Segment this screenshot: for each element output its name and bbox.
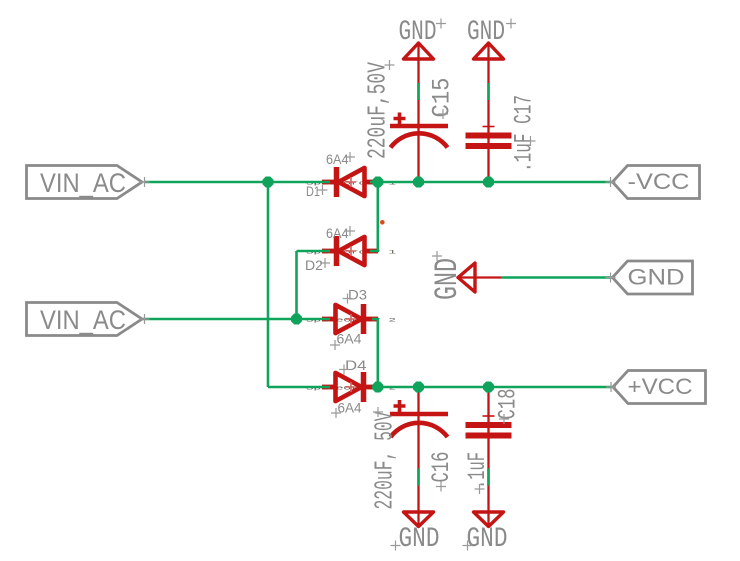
- svg-text:6A4: 6A4: [338, 401, 362, 416]
- svg-text:GND: GND: [467, 17, 505, 48]
- svg-text:6A4: 6A4: [326, 226, 349, 241]
- svg-text:VIN_AC: VIN_AC: [40, 305, 126, 335]
- svg-text:6A4: 6A4: [337, 332, 363, 347]
- svg-text:VIN_AC: VIN_AC: [40, 168, 126, 198]
- svg-text:.1uF: .1uF: [463, 452, 492, 489]
- svg-text:D4: D4: [345, 358, 367, 373]
- svg-text:D1: D1: [306, 184, 320, 199]
- svg-text:D2: D2: [305, 258, 323, 273]
- svg-text:C15: C15: [428, 78, 457, 118]
- svg-text:GND: GND: [467, 524, 508, 555]
- svg-text:220uF, 50V: 220uF, 50V: [370, 411, 400, 509]
- svg-text:GND: GND: [399, 17, 437, 48]
- svg-text:6A4: 6A4: [326, 152, 349, 167]
- svg-text:220uF,50V: 220uF,50V: [363, 62, 393, 159]
- svg-text:D3: D3: [348, 288, 367, 303]
- svg-text:+VCC: +VCC: [628, 374, 693, 399]
- svg-text:.1uF C17: .1uF C17: [510, 95, 539, 172]
- svg-text:-VCC: -VCC: [628, 169, 690, 194]
- svg-text:GND: GND: [399, 524, 440, 555]
- svg-text:GND: GND: [429, 258, 466, 300]
- svg-text:GND: GND: [628, 265, 685, 290]
- svg-text:C16: C16: [427, 452, 456, 483]
- svg-text:C18: C18: [494, 389, 523, 420]
